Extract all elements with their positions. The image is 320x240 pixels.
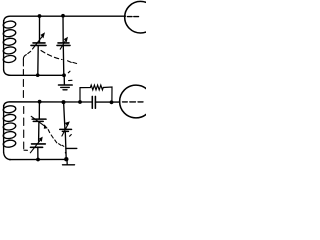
tube V2 envelope — [120, 85, 153, 118]
wire gang dashed link C2-C4 (curve right) — [41, 51, 77, 154]
wire grid dashes V1 — [128, 16, 139, 18]
node junction ground — [62, 73, 66, 77]
wire bottom rail of bottom section — [10, 158, 67, 160]
node junction top-left cap — [38, 14, 42, 18]
wire grid dashes V2 — [123, 101, 144, 103]
node junction RC right — [110, 100, 114, 104]
node junction bottom-right — [64, 157, 68, 161]
node junction left cap bottom — [36, 73, 40, 77]
wire bottom rail of top section — [9, 74, 64, 76]
wire gang dashed link C1-C3 (left vertical) — [23, 51, 30, 150]
node junction C3 bottom — [36, 158, 40, 162]
node junction C4 top — [62, 100, 66, 104]
capacitor C5 (series, vertical plates) — [92, 96, 95, 108]
capacitor C3a (fixed, in series) — [32, 102, 46, 141]
capacitor C2 (variable, top-right) — [57, 16, 70, 75]
tube V1 envelope — [125, 1, 157, 33]
ground — [59, 75, 73, 90]
node junction C3 top — [38, 100, 42, 104]
inductor L1 — [3, 20, 16, 75]
node junction top-right cap — [61, 14, 65, 18]
capacitor C3 (variable, bottom-left) — [30, 137, 45, 160]
wire top rail of bottom section — [4, 102, 93, 106]
capacitor C3a trimmer arrow — [31, 116, 48, 128]
capacitor C4 (variable, bottom-right) — [60, 102, 72, 159]
wire branch to right — [66, 147, 77, 149]
node junction RC left — [78, 100, 82, 104]
resistor R1 — [80, 85, 112, 102]
capacitor C1 (variable, top-left) — [31, 16, 46, 75]
inductor L2 — [3, 105, 16, 160]
wire top rail — [4, 16, 126, 21]
wire stub below bottom-right junction — [66, 159, 68, 164]
wire gang dashed link C3a-C4 — [48, 130, 64, 147]
